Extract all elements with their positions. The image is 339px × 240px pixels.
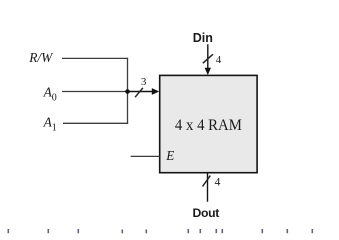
junction dot [125, 89, 130, 94]
svg-text:E: E [165, 148, 174, 163]
wire address bus vertical [127, 58, 129, 124]
arrowhead address bus [152, 88, 159, 95]
svg-text:R/W: R/W [28, 50, 54, 65]
svg-text:4: 4 [215, 177, 221, 189]
svg-text:A1: A1 [43, 115, 57, 134]
wire address bus to RAM [128, 91, 154, 93]
wire Dout [207, 173, 209, 202]
svg-text:4 x 4 RAM: 4 x 4 RAM [175, 117, 242, 134]
svg-text:4: 4 [216, 54, 222, 66]
caption text (clipped at bottom edge) [8, 229, 314, 233]
wire A0 [62, 91, 128, 93]
RAM block U1 [160, 75, 257, 172]
bus slash 4 Din [203, 54, 213, 63]
svg-text:Din: Din [193, 31, 213, 45]
arrowhead Din [205, 68, 211, 75]
wire E enable input [131, 155, 160, 157]
bus slash 4 Dout [203, 176, 211, 187]
svg-text:3: 3 [141, 76, 147, 88]
svg-text:Dout: Dout [193, 206, 220, 220]
wire A1 [63, 122, 128, 124]
bus slash 3 [135, 88, 143, 97]
wire R/W [62, 57, 128, 59]
svg-text:A0: A0 [43, 85, 57, 104]
wire Din [207, 44, 209, 70]
